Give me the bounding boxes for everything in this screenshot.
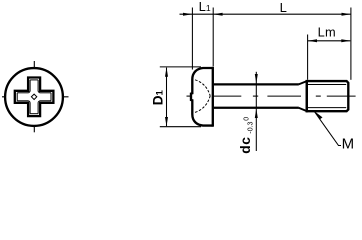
svg-text:-0.3: -0.3	[248, 121, 255, 133]
thread root lines	[308, 84, 346, 86]
arrow Lm right	[341, 39, 350, 42]
top arm inner contour	[29, 80, 31, 92]
label dc with tolerance	[238, 117, 255, 154]
D1 ext top	[160, 66, 201, 68]
hidden recess lines (dashed)	[195, 80, 210, 113]
phillips recess outer cross	[15, 78, 54, 117]
svg-text:L: L	[280, 0, 287, 15]
front view centerline horizontal	[2, 96, 69, 98]
arrow D1 bottom	[165, 117, 168, 126]
L1 / L dimension line	[180, 13, 351, 15]
Lm dimension line	[308, 40, 350, 42]
arrow Lm left	[308, 39, 317, 42]
front view centerline vertical	[33, 61, 35, 132]
arrow D1 top	[165, 67, 168, 76]
bottom arm inner contour	[29, 102, 31, 114]
arrow L left	[213, 13, 222, 16]
ext line head crown	[191, 8, 193, 70]
svg-text:0: 0	[244, 117, 251, 121]
M leader line	[314, 111, 341, 146]
dimension lines	[160, 8, 351, 152]
svg-text:L1: L1	[199, 0, 211, 14]
svg-text:dc: dc	[238, 136, 253, 153]
arrow L1 right (tail)	[183, 13, 192, 16]
screw centerline (side view axis)	[187, 95, 356, 97]
shank top line	[214, 83, 299, 85]
arrowheads	[165, 13, 351, 127]
ext line bearing face	[212, 8, 214, 67]
arrow dc bottom	[255, 109, 258, 118]
ext line thread start	[307, 35, 309, 80]
left arm inner contour	[17, 92, 29, 94]
shank bottom line	[214, 107, 299, 109]
arrow dc top	[255, 74, 258, 83]
dc dimension line	[255, 72, 257, 151]
svg-text:M: M	[342, 136, 355, 153]
phillips recess inner lines	[17, 80, 51, 114]
ext line screw tip	[350, 8, 352, 80]
transition cone	[299, 81, 307, 84]
svg-text:Lm: Lm	[318, 25, 336, 40]
arrow M leader	[314, 111, 323, 119]
screw head outline (front view circle)	[5, 68, 63, 126]
arrow L right	[342, 13, 351, 16]
screw head (side view outline)	[191, 68, 213, 126]
phillips recess center diamond	[31, 94, 36, 99]
D1 dimension line	[166, 68, 168, 127]
head bearing face	[212, 67, 214, 127]
thread left edge	[306, 80, 308, 112]
right arm inner contour	[40, 92, 52, 94]
D1 ext bottom	[160, 126, 201, 128]
recess center chamfers	[29, 91, 30, 92]
thread section outline	[307, 81, 349, 111]
